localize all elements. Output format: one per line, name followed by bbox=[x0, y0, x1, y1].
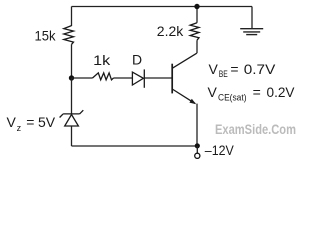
wire base node to 1k bbox=[72, 77, 93, 79]
resistor 2.2k bbox=[190, 23, 199, 40]
svg-text:Vz=5V: Vz=5V bbox=[7, 114, 56, 133]
wire left vertical (resistor bottom to base node) bbox=[71, 44, 73, 78]
transistor emitter arrowhead bbox=[189, 99, 196, 104]
wire collector lead bbox=[196, 40, 198, 53]
wire top horizontal rail bbox=[72, 6, 253, 8]
wire diode to base bbox=[144, 77, 172, 79]
ground bbox=[240, 29, 263, 35]
wire junction to terminal bbox=[196, 146, 198, 153]
zener diode Vz bbox=[60, 110, 84, 126]
wire left vertical (node to zener) bbox=[71, 78, 73, 114]
terminal -12V open circle bbox=[195, 153, 200, 158]
svg-text:VCE(sat)=0.2V: VCE(sat)=0.2V bbox=[208, 84, 296, 103]
svg-text:VBE=0.7V: VBE=0.7V bbox=[209, 61, 277, 79]
diode D bbox=[132, 69, 144, 87]
svg-text:1k: 1k bbox=[93, 53, 110, 68]
svg-text:D: D bbox=[132, 52, 142, 68]
resistor 1k bbox=[93, 73, 114, 80]
svg-text:2.2k: 2.2k bbox=[157, 23, 184, 39]
wire top-left vertical (15k top lead) bbox=[71, 7, 73, 27]
node base junction bbox=[69, 75, 74, 80]
transistor Q1 bbox=[172, 53, 197, 103]
node -12V junction bbox=[195, 143, 200, 148]
node top junction bbox=[194, 4, 199, 9]
svg-text:–12V: –12V bbox=[205, 142, 235, 158]
wire ground drop bbox=[251, 7, 253, 29]
wire 2.2k top lead bbox=[196, 7, 198, 23]
resistor 15k bbox=[64, 26, 74, 45]
wire emitter lead bbox=[196, 104, 198, 146]
svg-text:ExamSide.Com: ExamSide.Com bbox=[215, 122, 296, 138]
wire zener bottom lead bbox=[71, 126, 73, 146]
svg-text:15k: 15k bbox=[35, 28, 57, 44]
wire bottom horizontal bbox=[72, 145, 198, 147]
wire 1k to diode bbox=[114, 77, 133, 79]
